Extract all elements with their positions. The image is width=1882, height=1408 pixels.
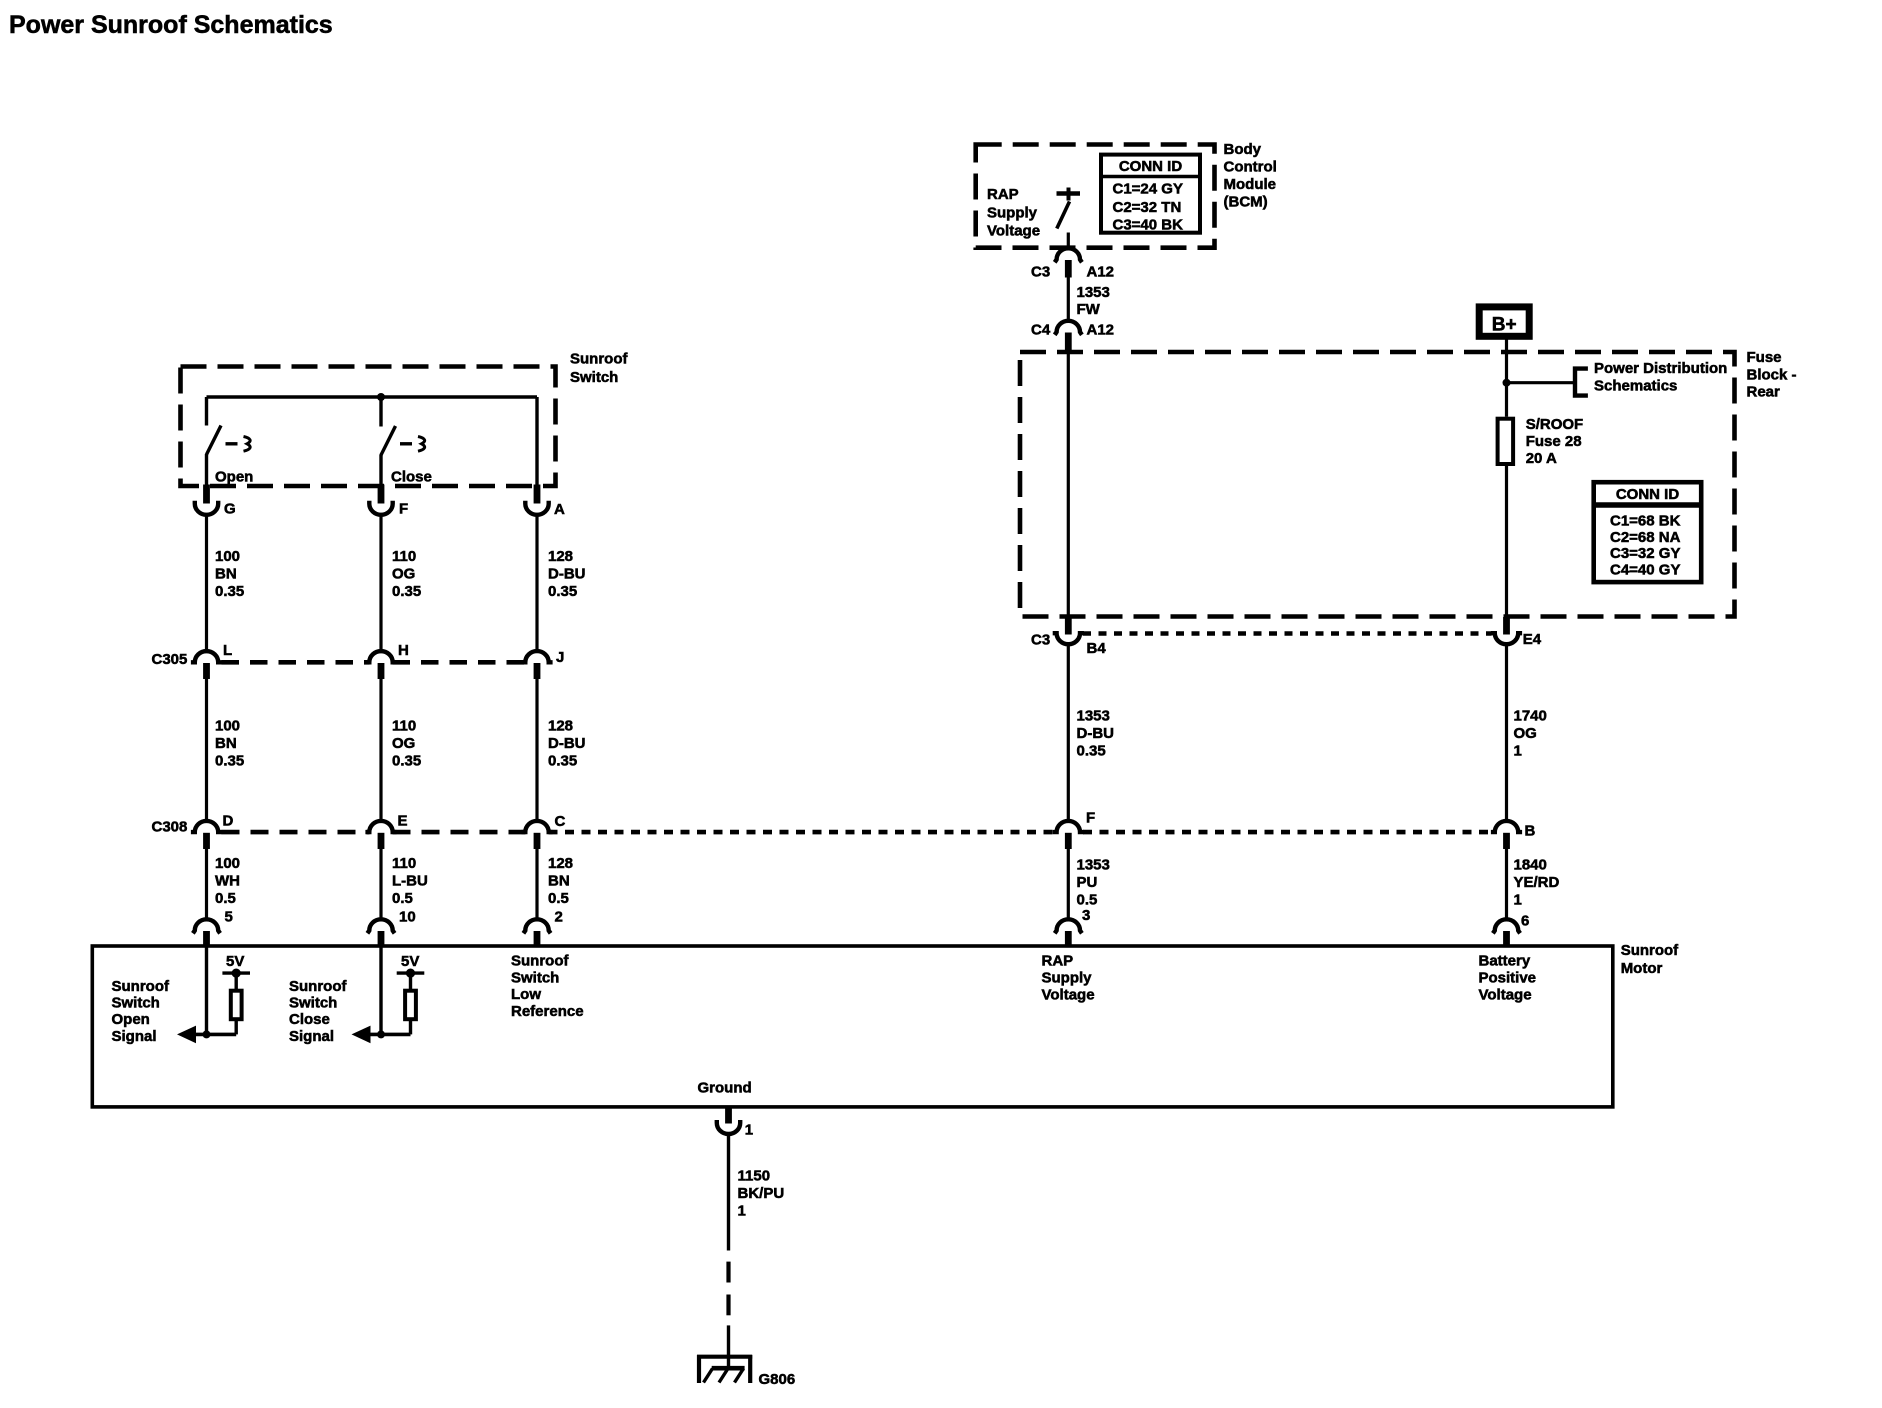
svg-text:Switch: Switch xyxy=(511,969,559,986)
svg-text:0.35: 0.35 xyxy=(1077,743,1106,760)
svg-text:1353: 1353 xyxy=(1077,284,1110,301)
svg-text:Switch: Switch xyxy=(289,995,337,1012)
svg-text:Sunroof: Sunroof xyxy=(1621,942,1679,959)
svg-text:D-BU: D-BU xyxy=(548,566,586,583)
svg-text:1: 1 xyxy=(745,1122,753,1139)
svg-text:Fuse 28: Fuse 28 xyxy=(1526,433,1582,450)
svg-text:6: 6 xyxy=(1521,913,1529,930)
svg-text:BN: BN xyxy=(215,735,237,752)
svg-text:H: H xyxy=(398,642,409,659)
svg-text:L-BU: L-BU xyxy=(392,873,428,890)
svg-text:YE/RD: YE/RD xyxy=(1514,874,1560,891)
svg-text:E4: E4 xyxy=(1523,631,1542,648)
svg-text:C305: C305 xyxy=(152,651,188,668)
svg-text:FW: FW xyxy=(1077,301,1101,318)
svg-text:Module: Module xyxy=(1224,176,1277,193)
svg-text:Close: Close xyxy=(289,1011,330,1028)
svg-text:C3=32 GY: C3=32 GY xyxy=(1610,545,1680,562)
svg-text:Voltage: Voltage xyxy=(1042,987,1095,1004)
svg-text:0.35: 0.35 xyxy=(392,753,421,770)
svg-text:Power Distribution: Power Distribution xyxy=(1594,360,1727,377)
svg-text:3: 3 xyxy=(1082,907,1090,924)
svg-text:Motor: Motor xyxy=(1621,960,1663,977)
svg-text:Signal: Signal xyxy=(289,1028,334,1045)
svg-text:Signal: Signal xyxy=(112,1028,157,1045)
svg-text:Sunroof: Sunroof xyxy=(511,953,569,970)
svg-text:Voltage: Voltage xyxy=(987,223,1040,240)
svg-text:C2=32 TN: C2=32 TN xyxy=(1113,199,1182,216)
svg-text:1: 1 xyxy=(1514,743,1522,760)
svg-text:OG: OG xyxy=(392,566,415,583)
svg-text:Battery: Battery xyxy=(1479,953,1531,970)
svg-text:B: B xyxy=(1525,823,1536,840)
svg-text:1: 1 xyxy=(738,1203,746,1220)
svg-text:WH: WH xyxy=(215,873,240,890)
svg-text:128: 128 xyxy=(548,548,573,565)
svg-text:110: 110 xyxy=(392,718,416,735)
svg-text:0.35: 0.35 xyxy=(215,583,244,600)
svg-text:F: F xyxy=(399,500,408,517)
svg-text:G: G xyxy=(224,500,236,517)
svg-text:Power Sunroof Schematics: Power Sunroof Schematics xyxy=(9,11,333,39)
svg-text:BN: BN xyxy=(548,873,570,890)
svg-text:128: 128 xyxy=(548,855,573,872)
svg-text:110: 110 xyxy=(392,548,416,565)
svg-text:A12: A12 xyxy=(1087,263,1115,280)
svg-text:0.35: 0.35 xyxy=(548,583,577,600)
svg-text:C1=24 GY: C1=24 GY xyxy=(1113,181,1183,198)
svg-text:G806: G806 xyxy=(759,1371,796,1388)
svg-text:0.35: 0.35 xyxy=(548,753,577,770)
svg-text:Switch: Switch xyxy=(112,995,160,1012)
svg-text:B4: B4 xyxy=(1087,640,1107,657)
svg-text:A12: A12 xyxy=(1087,322,1115,339)
svg-text:D: D xyxy=(223,812,234,829)
svg-text:Body: Body xyxy=(1224,141,1262,158)
svg-text:RAP: RAP xyxy=(1042,953,1074,970)
svg-text:2: 2 xyxy=(555,908,563,925)
svg-text:BN: BN xyxy=(215,566,237,583)
svg-text:A: A xyxy=(554,501,565,518)
svg-text:E: E xyxy=(398,812,408,829)
svg-text:F: F xyxy=(1086,810,1095,827)
svg-text:Positive: Positive xyxy=(1479,970,1537,987)
svg-text:0.5: 0.5 xyxy=(1077,892,1098,909)
svg-text:B+: B+ xyxy=(1492,315,1517,336)
svg-text:L: L xyxy=(223,642,232,659)
svg-text:20 A: 20 A xyxy=(1526,450,1557,467)
svg-text:C4=40 GY: C4=40 GY xyxy=(1610,562,1680,579)
svg-text:10: 10 xyxy=(399,908,416,925)
svg-text:Sunroof: Sunroof xyxy=(112,978,170,995)
svg-text:RAP: RAP xyxy=(987,186,1019,203)
svg-text:Close: Close xyxy=(391,469,432,486)
svg-text:0.5: 0.5 xyxy=(392,890,413,907)
svg-text:110: 110 xyxy=(392,855,416,872)
svg-text:Control: Control xyxy=(1224,159,1277,176)
svg-text:100: 100 xyxy=(215,548,240,565)
svg-text:Block -: Block - xyxy=(1747,366,1797,383)
svg-text:CONN ID: CONN ID xyxy=(1119,158,1183,175)
svg-text:Supply: Supply xyxy=(987,204,1038,221)
svg-text:C308: C308 xyxy=(152,819,188,836)
svg-text:5V: 5V xyxy=(226,953,244,970)
svg-text:BK/PU: BK/PU xyxy=(738,1185,785,1202)
svg-text:C1=68 BK: C1=68 BK xyxy=(1610,513,1681,530)
svg-text:0.35: 0.35 xyxy=(392,583,421,600)
svg-text:100: 100 xyxy=(215,855,240,872)
svg-text:J: J xyxy=(556,649,564,666)
svg-text:1: 1 xyxy=(1514,892,1522,909)
svg-text:Reference: Reference xyxy=(511,1003,584,1020)
svg-text:128: 128 xyxy=(548,718,573,735)
svg-text:1740: 1740 xyxy=(1514,708,1547,725)
svg-text:C3: C3 xyxy=(1031,632,1050,649)
svg-text:100: 100 xyxy=(215,718,240,735)
svg-text:Supply: Supply xyxy=(1042,970,1093,987)
svg-text:D-BU: D-BU xyxy=(548,735,586,752)
svg-text:Ground: Ground xyxy=(698,1080,752,1097)
svg-text:1840: 1840 xyxy=(1514,857,1547,874)
svg-text:Sunroof: Sunroof xyxy=(570,351,628,368)
svg-text:S/ROOF: S/ROOF xyxy=(1526,416,1584,433)
svg-text:C4: C4 xyxy=(1031,322,1051,339)
svg-text:Voltage: Voltage xyxy=(1479,987,1532,1004)
svg-text:1353: 1353 xyxy=(1077,857,1110,874)
svg-text:C3=40 BK: C3=40 BK xyxy=(1113,217,1184,234)
svg-text:C2=68 NA: C2=68 NA xyxy=(1610,529,1681,546)
svg-text:(BCM): (BCM) xyxy=(1224,194,1268,211)
svg-text:OG: OG xyxy=(1514,725,1537,742)
svg-text:D-BU: D-BU xyxy=(1077,725,1115,742)
svg-text:1150: 1150 xyxy=(738,1168,771,1185)
svg-text:Open: Open xyxy=(215,469,253,486)
svg-text:PU: PU xyxy=(1077,874,1098,891)
svg-text:Schematics: Schematics xyxy=(1594,378,1677,395)
svg-text:Rear: Rear xyxy=(1747,384,1781,401)
svg-text:Sunroof: Sunroof xyxy=(289,978,347,995)
svg-text:0.5: 0.5 xyxy=(548,890,569,907)
svg-text:Switch: Switch xyxy=(570,369,618,386)
svg-text:0.5: 0.5 xyxy=(215,890,236,907)
svg-text:5: 5 xyxy=(225,908,233,925)
svg-text:OG: OG xyxy=(392,735,415,752)
svg-text:5V: 5V xyxy=(401,953,419,970)
svg-text:Open: Open xyxy=(112,1011,150,1028)
svg-text:Low: Low xyxy=(511,986,541,1003)
svg-text:0.35: 0.35 xyxy=(215,753,244,770)
svg-text:C: C xyxy=(555,813,566,830)
svg-text:Fuse: Fuse xyxy=(1747,349,1782,366)
svg-text:1353: 1353 xyxy=(1077,708,1110,725)
svg-text:CONN ID: CONN ID xyxy=(1616,486,1680,503)
svg-text:C3: C3 xyxy=(1031,263,1050,280)
